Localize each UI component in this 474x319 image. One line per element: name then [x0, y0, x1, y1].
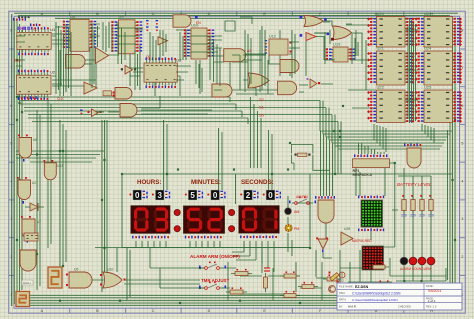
wire mid band drops: [320, 101, 341, 153]
OR gate U18A: [304, 16, 323, 27]
wire gate M3 out: [323, 223, 332, 258]
transistor Q1: [329, 286, 336, 293]
LED battery 1 off: [400, 257, 408, 265]
svg-text:Q0: Q0: [146, 55, 151, 59]
inverter U17 red: [306, 33, 316, 41]
svg-text:3: 3: [157, 191, 162, 200]
wire top ic feeds: [55, 25, 418, 108]
logic probe P2 digit 2: [16, 292, 30, 307]
IC U13 compare: [265, 35, 292, 56]
wire bcd feeders minutes: [219, 128, 223, 190]
svg-text:220: 220: [410, 214, 416, 218]
wire staircase to gate: [321, 131, 342, 196]
buffer U11: [121, 66, 136, 75]
svg-text:4: 4: [461, 179, 463, 183]
svg-text:ALARM ARM (ON/OFF): ALARM ARM (ON/OFF): [190, 254, 240, 259]
svg-text:0: 0: [268, 191, 273, 200]
IC U4 decoder: [63, 14, 96, 52]
svg-text:U19: U19: [333, 42, 341, 47]
7seg display seconds: [239, 206, 280, 239]
svg-text:220: 220: [428, 214, 434, 218]
AND gate M3 big: [315, 196, 335, 223]
wire ic bottom bus: [321, 131, 453, 149]
switch AM/PM: [289, 197, 316, 205]
svg-text:220: 220: [419, 214, 425, 218]
wire left vertical bus: [17, 20, 22, 300]
AND gate L2: [17, 177, 36, 204]
label box HIGH: [22, 280, 33, 285]
resistor R11 loop: [291, 145, 330, 171]
separator LED 1: [174, 209, 180, 215]
wire bottom bus: [16, 295, 456, 305]
svg-text:U21: U21: [377, 46, 385, 51]
wire loop right of U9: [225, 17, 252, 31]
resistor pack RP1: [353, 154, 390, 177]
svg-text:U20: U20: [377, 11, 385, 16]
svg-text:S0: S0: [259, 113, 265, 118]
OR gate U31: [100, 268, 126, 289]
svg-text:AM/PM: AM/PM: [296, 195, 308, 199]
svg-text:PATH:: PATH:: [339, 298, 347, 302]
svg-text:U8: U8: [176, 58, 182, 63]
switch alarm: [199, 262, 226, 270]
AND gate U13A: [224, 49, 246, 62]
svg-text:220: 220: [401, 214, 407, 218]
7seg display minutes: [183, 206, 224, 239]
inverter M4: [316, 237, 328, 252]
probe square U9 out: [195, 16, 198, 19]
BCD display seconds tens: [240, 190, 258, 200]
svg-text:2: 2: [246, 191, 251, 200]
diode D3 diagonal: [329, 272, 339, 283]
wire top verticals: [60, 30, 366, 96]
AND gate U16B: [280, 60, 299, 73]
svg-text:U6: U6: [33, 138, 37, 142]
wire display top rail: [122, 120, 452, 248]
svg-text:C:\Users\WAR\Desktop\EZ 2.DSN: C:\Users\WAR\Desktop\EZ 2.DSN: [352, 298, 398, 302]
BCD display minutes tens: [185, 190, 203, 200]
svg-text:CLK: CLK: [57, 97, 64, 101]
wire top band extra: [155, 55, 290, 96]
pin strip left of U9: [146, 20, 149, 21]
IC U21 driver: [367, 46, 414, 86]
svg-text:U7: U7: [37, 220, 41, 224]
svg-text:5: 5: [461, 142, 463, 146]
corner specks: [13, 18, 14, 21]
svg-text:U23: U23: [424, 11, 432, 16]
svg-text:C: C: [152, 309, 155, 313]
dot matrix red: [352, 239, 384, 270]
buzzer BUZ1: [338, 272, 345, 283]
wire matrix links: [348, 168, 398, 282]
svg-text:CL: CL: [33, 28, 37, 32]
capacitor C1: [264, 268, 270, 271]
IC U19s small: [326, 42, 355, 63]
IC U22 driver: [367, 85, 414, 123]
LED battery 4: [427, 257, 435, 265]
wire rtc links: [230, 97, 261, 168]
logic probe P1 digit 2: [48, 267, 62, 288]
svg-text:DSN:: DSN:: [339, 291, 345, 295]
dot matrix green: [358, 196, 384, 232]
AND gate L3: [44, 160, 64, 180]
wire left mid links: [16, 151, 104, 162]
separator LED 3: [229, 209, 235, 215]
svg-text:SECONDS:: SECONDS:: [241, 179, 274, 186]
svg-text:6: 6: [461, 104, 463, 108]
resistor R4: [298, 282, 318, 289]
wire left bus 2: [12, 14, 15, 306]
resistor R6: [323, 274, 341, 281]
wire ic bottom drops: [374, 124, 434, 152]
OR gate U15: [248, 73, 269, 88]
wire battery columns: [396, 168, 446, 281]
wire alarm rows: [160, 268, 236, 288]
wire topleft verticals: [56, 22, 358, 96]
AND gate U30: [66, 268, 92, 289]
svg-text:ALARM SOUND ARM: ALARM SOUND ARM: [400, 267, 432, 271]
buffer U32: [80, 109, 102, 117]
svg-text:5: 5: [190, 191, 195, 200]
IC U25 driver: [415, 85, 462, 123]
diode D1: [25, 203, 44, 211]
AND gate U7B: [115, 88, 132, 100]
svg-text:FILE NAME:: FILE NAME:: [339, 285, 354, 289]
IC U10 decoder: [184, 23, 214, 60]
svg-text:U24: U24: [424, 46, 432, 51]
IC U23 driver: [415, 11, 462, 47]
AND gate L4: [21, 216, 41, 243]
LED battery 2: [409, 257, 417, 265]
wire topleft horizontals: [16, 22, 352, 112]
svg-text:U1: U1: [50, 27, 56, 32]
IC U5 decoder: [111, 14, 142, 54]
svg-text:U39: U39: [344, 227, 350, 231]
buffer U6B: [84, 82, 97, 94]
separator LED 2: [174, 226, 180, 232]
title block: [337, 283, 462, 310]
wire ampm link: [288, 196, 310, 256]
resistor R1: [231, 269, 252, 276]
AND gate L1: [18, 135, 37, 162]
OR gate U18B: [333, 26, 352, 40]
svg-text:U13: U13: [269, 35, 276, 39]
wire display feeders: [136, 241, 274, 272]
svg-text:A3: A3: [247, 49, 251, 53]
svg-text:PM: PM: [294, 227, 299, 231]
wire inter-column bus: [408, 18, 416, 123]
svg-text:DATE:: DATE:: [426, 284, 434, 288]
wire mid horizontal band: [20, 97, 338, 122]
resistor R7: [369, 262, 389, 269]
resistor RB3 220: [419, 195, 425, 218]
wire bottom mid rail: [95, 248, 310, 273]
wire display box: [122, 174, 310, 300]
AND gate U14: [120, 104, 137, 118]
wire top-left weave: [16, 24, 333, 114]
svg-text:AM: AM: [294, 210, 299, 214]
svg-text:U5: U5: [119, 14, 125, 19]
AND gate L5: [20, 250, 36, 271]
switch tmr: [199, 282, 226, 290]
svg-text:MATRIX-RED: MATRIX-RED: [352, 239, 372, 243]
AND gate U9: [173, 15, 191, 27]
AND gate U3A: [66, 55, 86, 69]
BCD display minutes units: [207, 190, 225, 200]
svg-text:2: 2: [461, 255, 463, 259]
svg-text:S1: S1: [259, 105, 265, 110]
LED PM yellow: [285, 224, 293, 232]
svg-text:U5: U5: [74, 268, 78, 272]
resistor RB1 220: [401, 195, 407, 218]
resistor R10 vertical: [264, 273, 268, 292]
probe squares: [300, 16, 330, 37]
IC U1 counter: [17, 27, 56, 56]
diode D2: [307, 78, 321, 88]
wire alarm mesh verticals: [228, 250, 446, 300]
svg-text:W.A.R: W.A.R: [348, 305, 356, 309]
resistor RB2 220: [410, 195, 416, 218]
svg-text:S2: S2: [259, 97, 265, 102]
svg-text:0: 0: [135, 191, 140, 200]
LED battery 3: [418, 257, 426, 265]
svg-text:U4: U4: [70, 14, 76, 19]
wire bottom mid links: [92, 268, 446, 296]
separator LED 4: [229, 226, 235, 232]
svg-text:U25: U25: [424, 85, 432, 90]
svg-text:BU2: BU2: [338, 279, 344, 283]
svg-text:CHECKED:: CHECKED:: [398, 305, 412, 309]
wire mid vertical bus: [102, 120, 107, 292]
IC U7 latch: [103, 91, 115, 97]
LED AM off: [285, 208, 292, 215]
resistor R2: [226, 287, 247, 294]
resistor RB4 220: [428, 195, 434, 218]
IC U20 driver: [367, 11, 414, 47]
wire left gates column: [37, 100, 66, 290]
svg-text:C:\Users\WAR\Desktop\EZ 2.DSN: C:\Users\WAR\Desktop\EZ 2.DSN: [352, 292, 401, 296]
svg-text:RST: RST: [14, 59, 22, 63]
svg-text:U2: U2: [50, 70, 56, 75]
svg-text:U33: U33: [57, 164, 63, 168]
svg-text:0: 0: [213, 191, 218, 200]
svg-text:9/5/2024: 9/5/2024: [428, 289, 441, 293]
svg-text:D: D: [208, 309, 211, 313]
svg-text:EN: EN: [196, 21, 201, 25]
resistor R9: [369, 291, 389, 298]
svg-text:EZ.DSN: EZ.DSN: [355, 285, 369, 289]
BCD display hours units: [152, 190, 170, 200]
svg-text:REV: 2.0: REV: 2.0: [426, 305, 437, 309]
7seg display hours: [131, 206, 171, 239]
svg-text:1 of 1: 1 of 1: [428, 299, 436, 303]
svg-text:U2: U2: [32, 181, 36, 185]
AND gate battery: [404, 144, 421, 169]
svg-text:3: 3: [461, 217, 463, 221]
wire junctions: [59, 300, 61, 302]
resistor R8: [374, 280, 394, 287]
wire top horizontal bus: [14, 13, 458, 18]
svg-text:U22: U22: [377, 85, 385, 90]
wire or-gate steps: [316, 21, 362, 146]
op-amp U6A: [96, 48, 109, 64]
BCD display hours tens: [130, 190, 148, 200]
left specks row: [18, 96, 19, 99]
resistor R5: [280, 291, 300, 298]
IC U2 counter: [16, 70, 55, 101]
BCD display seconds units: [263, 190, 281, 200]
IC U24 driver: [415, 46, 462, 86]
svg-text:U10: U10: [107, 268, 113, 272]
wire right vertical bus: [448, 22, 456, 298]
AND gate U16: [278, 81, 297, 95]
svg-text:MINUTES:: MINUTES:: [191, 179, 221, 186]
wire respack feeders: [359, 143, 395, 247]
svg-text:BY:: BY:: [339, 305, 343, 309]
svg-text:RESPACK-8: RESPACK-8: [353, 173, 372, 177]
svg-text:HIGH: HIGH: [23, 281, 31, 285]
op-amp M5: [341, 227, 353, 245]
resistor R3: [280, 271, 300, 278]
buffer U12: [158, 37, 168, 45]
IC U8 register: [144, 57, 182, 88]
svg-text:BATTERY LEVEL: BATTERY LEVEL: [397, 182, 432, 187]
IC small L6: [24, 233, 38, 241]
svg-text:HOURS:: HOURS:: [137, 179, 161, 186]
AND gate U13B: [212, 84, 232, 97]
